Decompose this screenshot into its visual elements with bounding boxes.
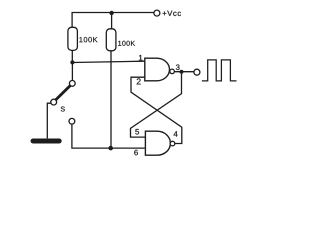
- wire: cross-coupling G1 pin 2 to G2 output pin 4: [131, 77, 182, 143]
- wire: R2 bottom down to bottom rail (crosses pin1 wire, no junction): [110, 51, 112, 148]
- value label 100K (R1): [79, 37, 97, 42]
- NAND gate G2 body (pins 5,6 in; 4 out): [145, 131, 170, 155]
- wire: Vcc rail from R1 top corner to +Vcc terminal: [72, 13, 154, 28]
- output terminal: [194, 69, 200, 75]
- switch S upper throw contact: [69, 81, 75, 87]
- wire: G1 bubble to output terminal: [174, 71, 194, 73]
- node B: junction dot bottom rail / R2 column: [108, 146, 113, 151]
- switch S pole contact: [51, 99, 57, 105]
- value label 100K (R2): [118, 41, 135, 46]
- wire: lower throw down and along bottom rail to gate G2 input pin 6: [72, 124, 145, 148]
- pin number 5: [135, 129, 139, 134]
- wire: node A to gate G1 input pin 1: [72, 61, 144, 62]
- +Vcc terminal: [154, 10, 160, 16]
- pin number 3: [176, 64, 180, 70]
- square wave output symbol: [202, 60, 237, 81]
- pin number 1: [139, 55, 142, 60]
- gate G1 output inversion bubble: [170, 69, 175, 74]
- wire: R1 bottom to node A: [71, 50, 73, 62]
- wire: cross-coupling G1 output pin 3 to G2 input pin 5: [131, 74, 182, 137]
- label +Vcc: [163, 11, 181, 16]
- wire: Vcc rail junction down to R2 top: [111, 13, 113, 29]
- resistor R1 (100K) body: [68, 27, 78, 50]
- resistor R2 (100K) body: [106, 29, 116, 51]
- wire: node A down to switch upper throw contact: [71, 62, 73, 80]
- label S: [61, 107, 65, 112]
- NAND gate G1 body (pins 1,2 in; 3 out): [145, 58, 170, 81]
- node C: junction dot on G1 output (pin 3 net): [179, 70, 183, 74]
- gate G2 output inversion bubble: [170, 141, 175, 146]
- node: junction dot on Vcc rail above R2: [109, 11, 113, 15]
- wire: switch pole to ground bar: [47, 103, 51, 138]
- pin number 2: [137, 78, 141, 84]
- node A: junction dot R1 / pin1 / switch upper throw: [70, 60, 74, 64]
- pin number 4: [174, 131, 178, 136]
- pin number 6: [134, 150, 138, 156]
- switch S lever (closed to upper throw): [56, 86, 70, 99]
- switch S lower throw contact: [69, 118, 75, 124]
- ground bar: [33, 139, 59, 144]
